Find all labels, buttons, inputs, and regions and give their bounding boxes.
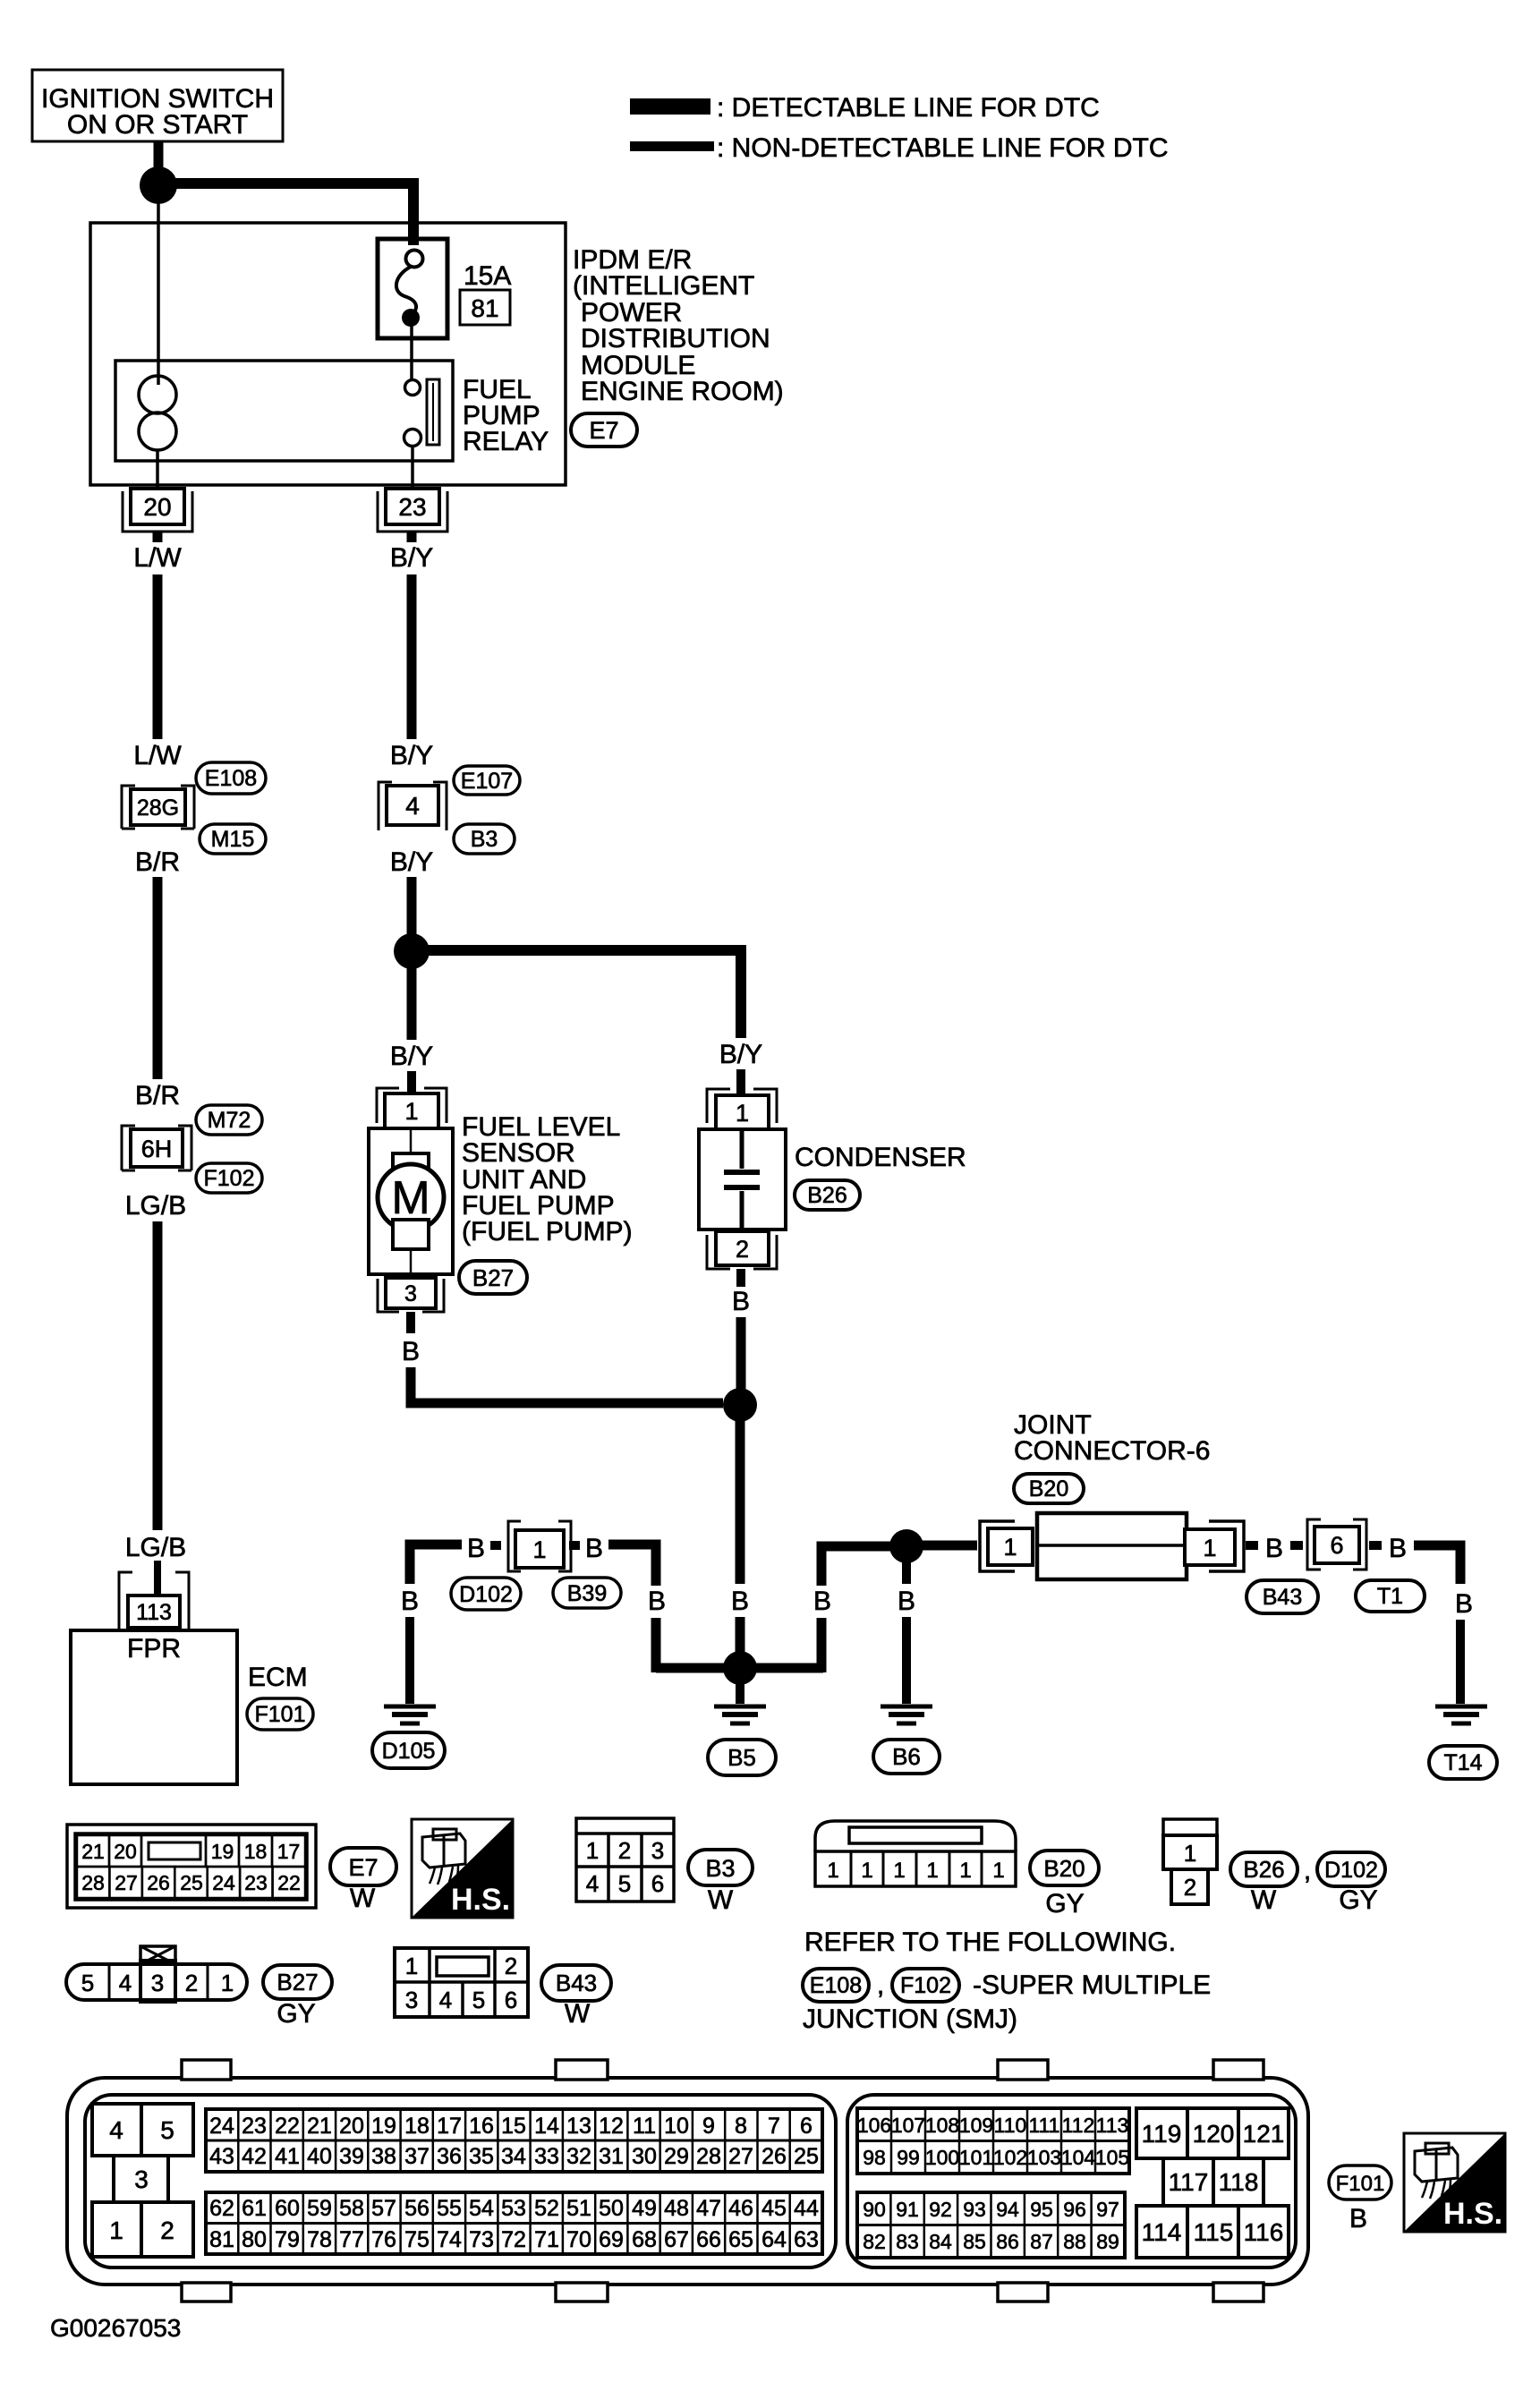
svg-text:G00267053: G00267053	[50, 2314, 181, 2342]
ECM box	[71, 1630, 237, 1784]
svg-text:B3: B3	[471, 827, 498, 852]
svg-text:84: 84	[929, 2230, 952, 2253]
svg-text:100: 100	[925, 2146, 959, 2169]
svg-text:F101: F101	[255, 1702, 306, 1727]
svg-text:B/Y: B/Y	[719, 1040, 762, 1069]
ground symbol B5	[714, 1705, 766, 1709]
svg-text:82: 82	[863, 2230, 886, 2253]
svg-text:B: B	[731, 1587, 749, 1616]
connector ref B3 oval	[454, 824, 515, 854]
svg-text:B/R: B/R	[135, 847, 180, 877]
fuel pump relay box	[115, 361, 453, 461]
svg-text:12: 12	[599, 2114, 624, 2139]
svg-text:B43: B43	[556, 1970, 597, 1996]
svg-text:4: 4	[119, 1970, 132, 1996]
svg-text:19: 19	[211, 1840, 234, 1863]
svg-text:2: 2	[736, 1236, 749, 1263]
fuse number 81 box	[460, 290, 510, 325]
connector ref F102 oval	[196, 1163, 262, 1193]
svg-text:68: 68	[632, 2227, 657, 2252]
svg-text:43: 43	[209, 2144, 234, 2169]
joint connector body	[1037, 1513, 1187, 1579]
svg-text:T14: T14	[1443, 1750, 1482, 1775]
SMJ connector 28G	[131, 789, 185, 825]
svg-text:B: B	[1349, 2204, 1367, 2234]
svg-text:25: 25	[180, 1871, 203, 1894]
wire down to B6 ground	[902, 1617, 911, 1704]
svg-text:71: 71	[534, 2227, 559, 2252]
connector ref B39 oval	[553, 1578, 621, 1608]
svg-text:: DETECTABLE LINE FOR DTC: : DETECTABLE LINE FOR DTC	[717, 93, 1100, 123]
connector ref E107 oval	[454, 766, 520, 795]
condenser body B26	[699, 1129, 786, 1230]
svg-text:E107: E107	[461, 769, 513, 794]
svg-text:8: 8	[735, 2114, 747, 2139]
svg-text:31: 31	[599, 2144, 624, 2169]
fuse 15A box	[378, 239, 447, 338]
svg-text:20: 20	[114, 1840, 137, 1863]
svg-text:67: 67	[664, 2227, 689, 2252]
junction node B6 splice	[889, 1529, 923, 1563]
cells 4 5 3 1 2	[92, 2104, 141, 2156]
connector T1 pin 6	[1307, 1519, 1321, 1570]
svg-text:ON OR START: ON OR START	[67, 110, 248, 140]
svg-text:104: 104	[1061, 2146, 1096, 2169]
svg-text:1: 1	[893, 1859, 905, 1883]
svg-text:3: 3	[134, 2165, 149, 2193]
svg-text:B43: B43	[1263, 1585, 1302, 1610]
svg-text:23: 23	[244, 1871, 268, 1894]
wire splice down	[736, 1421, 745, 1584]
svg-text:94: 94	[996, 2198, 1019, 2221]
svg-text:23: 23	[398, 493, 426, 521]
svg-text:6: 6	[651, 1870, 664, 1897]
B43 connector pinout	[395, 1948, 528, 2017]
svg-text:1: 1	[861, 1859, 872, 1883]
svg-text:119: 119	[1142, 2120, 1182, 2148]
svg-text:101: 101	[959, 2146, 993, 2169]
fuse element	[406, 251, 423, 268]
SMJ connector 4	[387, 786, 438, 825]
svg-text:L/W: L/W	[133, 741, 182, 770]
wire down to D105	[405, 1617, 414, 1704]
wire stub below pin 2	[736, 1269, 745, 1287]
svg-text:50: 50	[599, 2196, 624, 2221]
svg-text:ENGINE ROOM): ENGINE ROOM)	[581, 377, 784, 406]
svg-text:F101: F101	[1336, 2172, 1385, 2196]
connector ref M15 oval	[200, 824, 266, 854]
svg-text:70: 70	[566, 2227, 591, 2252]
ECM connector F101 housing	[67, 2078, 1308, 2285]
ground ref B6 oval	[873, 1740, 940, 1774]
svg-text:114: 114	[1142, 2218, 1182, 2246]
relay armature bar	[427, 379, 439, 445]
svg-text:60: 60	[275, 2196, 300, 2221]
svg-text:54: 54	[469, 2196, 494, 2221]
connector ref B20 oval	[1014, 1474, 1084, 1503]
E7 connector pinout	[67, 1825, 316, 1908]
svg-text:B: B	[401, 1587, 419, 1616]
svg-text:B: B	[402, 1337, 420, 1366]
svg-text:61: 61	[242, 2196, 267, 2221]
svg-text:87: 87	[1030, 2230, 1053, 2253]
svg-text:69: 69	[599, 2227, 624, 2252]
ground symbol T14	[1435, 1705, 1487, 1709]
svg-text:26: 26	[761, 2144, 787, 2169]
svg-text:106: 106	[857, 2114, 891, 2137]
legend: detectable line sample	[630, 98, 710, 115]
svg-text:B: B	[813, 1587, 831, 1616]
svg-text:98: 98	[863, 2146, 886, 2169]
svg-text:30: 30	[632, 2144, 657, 2169]
svg-text:1: 1	[109, 2217, 123, 2244]
svg-text:: NON-DETECTABLE LINE FOR DTC: : NON-DETECTABLE LINE FOR DTC	[717, 133, 1169, 163]
svg-text:20: 20	[143, 493, 171, 521]
svg-text:22: 22	[277, 1871, 301, 1894]
svg-text:ECM: ECM	[248, 1663, 308, 1692]
svg-text:3: 3	[405, 1987, 418, 2013]
wire to B43	[1246, 1541, 1258, 1550]
connector ref B26 oval	[795, 1180, 860, 1210]
wire B/Y vertical	[407, 574, 417, 739]
svg-text:113: 113	[136, 1600, 172, 1625]
svg-text:B27: B27	[277, 1969, 318, 1995]
svg-text:W: W	[565, 1999, 591, 2029]
wire B/Y to fuel pump	[407, 968, 417, 1040]
svg-text:1: 1	[992, 1859, 1004, 1883]
svg-text:6: 6	[505, 1987, 517, 2013]
svg-text:115: 115	[1194, 2218, 1234, 2246]
svg-text:116: 116	[1244, 2218, 1284, 2246]
svg-text:5: 5	[160, 2116, 174, 2144]
svg-text:81: 81	[209, 2227, 234, 2252]
svg-text:24: 24	[212, 1871, 235, 1894]
svg-text:56: 56	[404, 2196, 430, 2221]
svg-text:3: 3	[404, 1281, 417, 1306]
svg-text:B20: B20	[1043, 1855, 1085, 1882]
pin grid 62-44 / 81-63	[206, 2192, 822, 2254]
wire coil to pin 20	[156, 450, 159, 489]
svg-text:7: 7	[768, 2114, 780, 2139]
svg-text:85: 85	[963, 2230, 986, 2253]
housing tab top	[1213, 2060, 1263, 2080]
svg-text:111: 111	[1029, 2114, 1060, 2137]
joint connector left pin 1	[980, 1521, 1015, 1571]
svg-text:28: 28	[81, 1871, 105, 1894]
B27 keying box with X	[140, 1946, 175, 1964]
connector ref E7 oval	[571, 413, 637, 447]
pinout ref B3 oval	[688, 1850, 753, 1885]
svg-text:18: 18	[404, 2114, 430, 2139]
wire fuse to relay contact	[410, 325, 413, 379]
wire B/Y to junction	[407, 877, 417, 934]
wire down to T14	[1456, 1620, 1465, 1704]
svg-text:27: 27	[728, 2144, 753, 2169]
ground ref B5 oval	[708, 1740, 776, 1775]
svg-text:E108: E108	[205, 766, 257, 791]
capacitor symbol	[740, 1129, 744, 1169]
IPDM E/R module box E7	[90, 223, 566, 485]
svg-text:GY: GY	[277, 1999, 315, 2029]
svg-text:B: B	[1455, 1589, 1473, 1619]
svg-text:B: B	[1389, 1534, 1407, 1563]
svg-text:3: 3	[651, 1837, 664, 1864]
svg-text:DISTRIBUTION: DISTRIBUTION	[581, 324, 770, 353]
wire LG/B vertical	[153, 1221, 163, 1530]
svg-text:92: 92	[929, 2198, 952, 2221]
svg-text:LG/B: LG/B	[125, 1533, 186, 1562]
svg-text:34: 34	[501, 2144, 526, 2169]
svg-text:73: 73	[469, 2227, 494, 2252]
B3 connector pinout	[576, 1818, 674, 1902]
svg-text:117: 117	[1169, 2168, 1209, 2196]
svg-text:W: W	[708, 1885, 734, 1915]
housing tab bottom	[1213, 2283, 1263, 2302]
svg-text:97: 97	[1096, 2198, 1119, 2221]
svg-text:4: 4	[586, 1870, 599, 1897]
svg-text:M: M	[391, 1172, 430, 1224]
svg-text:D102: D102	[459, 1582, 513, 1607]
svg-text:SENSOR: SENSOR	[462, 1138, 575, 1168]
pin grid 90-97 / 82-89	[857, 2192, 1125, 2258]
svg-text:107: 107	[891, 2114, 925, 2137]
svg-text:65: 65	[728, 2227, 753, 2252]
svg-text:17: 17	[437, 2114, 462, 2139]
svg-text:1: 1	[586, 1837, 599, 1864]
svg-text:3: 3	[151, 1970, 164, 1996]
svg-text:89: 89	[1096, 2230, 1119, 2253]
wire splice to joint connector	[922, 1541, 977, 1551]
svg-text:13: 13	[566, 2114, 591, 2139]
condenser pin 2 connector	[716, 1231, 769, 1265]
wire right limb corner	[821, 1546, 890, 1586]
svg-text:95: 95	[1030, 2198, 1053, 2221]
housing tab bottom	[182, 2283, 231, 2302]
wire to connector B39	[569, 1541, 580, 1550]
B26/D102 connector pinout	[1163, 1819, 1217, 1835]
harness symbol H.S. bottom	[1404, 2133, 1505, 2232]
svg-text:2: 2	[1184, 1874, 1196, 1901]
svg-text:FPR: FPR	[127, 1634, 181, 1663]
connector ref B43 oval	[1246, 1580, 1318, 1613]
ECM pin 113 connector	[119, 1572, 189, 1630]
svg-text:80: 80	[242, 2227, 267, 2252]
svg-text:E108: E108	[810, 1973, 862, 1998]
svg-text:19: 19	[371, 2114, 396, 2139]
note ref E108 oval	[803, 1969, 869, 2002]
pin grid 24-6 / 43-25	[206, 2109, 822, 2172]
svg-text:93: 93	[963, 2198, 986, 2221]
connector B39/D102 pin 1	[515, 1530, 564, 1568]
housing tab bottom	[998, 2283, 1048, 2302]
svg-text:6: 6	[1330, 1532, 1343, 1559]
svg-text:1: 1	[1203, 1535, 1216, 1561]
svg-text:25: 25	[794, 2144, 819, 2169]
svg-text:B/Y: B/Y	[390, 1042, 433, 1071]
svg-text:23: 23	[242, 2114, 267, 2139]
svg-text:32: 32	[566, 2144, 591, 2169]
svg-text:83: 83	[896, 2230, 919, 2253]
connector ref M72 oval	[196, 1105, 262, 1135]
svg-text:16: 16	[469, 2114, 494, 2139]
svg-text:1: 1	[221, 1970, 234, 1996]
svg-text:W: W	[350, 1884, 376, 1913]
svg-text:B/Y: B/Y	[390, 847, 433, 877]
svg-text:GY: GY	[1045, 1889, 1084, 1919]
svg-text:109: 109	[959, 2114, 993, 2137]
svg-text:CONDENSER: CONDENSER	[795, 1143, 966, 1172]
wire corner to T14 ground	[1414, 1545, 1460, 1584]
svg-text:1: 1	[827, 1859, 838, 1883]
svg-text:1: 1	[959, 1859, 971, 1883]
svg-text:118: 118	[1219, 2168, 1259, 2196]
svg-text:2: 2	[618, 1837, 631, 1864]
svg-text:39: 39	[339, 2144, 364, 2169]
svg-text:JUNCTION (SMJ): JUNCTION (SMJ)	[803, 2004, 1017, 2034]
svg-text:CONNECTOR-6: CONNECTOR-6	[1014, 1436, 1210, 1466]
svg-text:(INTELLIGENT: (INTELLIGENT	[573, 271, 754, 301]
ground junction node	[723, 1651, 757, 1685]
housing tab bottom	[556, 2283, 608, 2302]
svg-text:REFER TO THE FOLLOWING.: REFER TO THE FOLLOWING.	[804, 1927, 1176, 1957]
relay contact lower	[404, 430, 421, 447]
svg-text:B39: B39	[567, 1581, 607, 1606]
svg-text:B/Y: B/Y	[390, 741, 433, 770]
svg-text:26: 26	[147, 1871, 170, 1894]
note ref F102 oval	[892, 1969, 959, 2002]
pinout ref B26 oval	[1230, 1852, 1298, 1886]
joint connector right pin 1	[1185, 1529, 1235, 1565]
ground symbol D105	[384, 1705, 436, 1709]
svg-text:102: 102	[993, 2146, 1027, 2169]
svg-text:72: 72	[501, 2227, 526, 2252]
svg-text:D105: D105	[382, 1739, 436, 1764]
svg-text:58: 58	[339, 2196, 364, 2221]
svg-text:1: 1	[532, 1536, 546, 1563]
connector ref F101 oval	[247, 1698, 313, 1730]
svg-text:B20: B20	[1029, 1476, 1068, 1502]
svg-text:90: 90	[863, 2198, 886, 2221]
svg-text:42: 42	[242, 2144, 267, 2169]
svg-text:29: 29	[664, 2144, 689, 2169]
pump motor M	[378, 1164, 444, 1230]
svg-text:37: 37	[404, 2144, 430, 2169]
junction node B/Y splice	[394, 933, 430, 969]
svg-text:81: 81	[471, 294, 498, 322]
connector ref T1 oval	[1356, 1580, 1425, 1612]
svg-text:5: 5	[472, 1987, 485, 2013]
svg-text:63: 63	[794, 2227, 819, 2252]
svg-text:T1: T1	[1377, 1584, 1403, 1609]
wire branch to fuse	[171, 183, 413, 245]
wire stub below pin 23	[407, 532, 417, 542]
svg-text:64: 64	[761, 2227, 787, 2252]
ground bus horizontal	[656, 1663, 823, 1673]
wire from ignition switch to junction	[154, 141, 164, 170]
svg-text:120: 120	[1193, 2120, 1235, 2148]
svg-text:W: W	[1251, 1885, 1277, 1915]
svg-text:B: B	[585, 1534, 603, 1563]
svg-text:96: 96	[1063, 2198, 1086, 2221]
svg-text:40: 40	[307, 2144, 332, 2169]
svg-text:L/W: L/W	[133, 543, 182, 573]
junction node B splice	[723, 1388, 757, 1422]
svg-text:B5: B5	[727, 1744, 756, 1771]
svg-text:66: 66	[696, 2227, 721, 2252]
svg-text:D102: D102	[1324, 1858, 1378, 1883]
wire branch to condenser	[428, 950, 741, 1038]
condenser pin 1 connector	[707, 1089, 777, 1123]
svg-text:1: 1	[926, 1859, 938, 1883]
wire to left	[490, 1541, 501, 1550]
wire corner to D105 ground	[410, 1544, 462, 1584]
pin 23 connector	[386, 489, 439, 524]
svg-text:4: 4	[109, 2116, 123, 2144]
svg-text:57: 57	[371, 2196, 396, 2221]
svg-text:B: B	[732, 1287, 750, 1316]
pinout ref B43 oval	[541, 1965, 611, 2001]
svg-text:28: 28	[696, 2144, 721, 2169]
svg-text:18: 18	[244, 1840, 268, 1863]
svg-text:E7: E7	[589, 417, 618, 444]
svg-text:59: 59	[307, 2196, 332, 2221]
svg-text:2: 2	[505, 1953, 517, 1979]
wire B5 ground drop	[736, 1683, 744, 1704]
svg-text:5: 5	[618, 1870, 631, 1897]
svg-text:51: 51	[566, 2196, 591, 2221]
svg-text:B6: B6	[892, 1743, 921, 1770]
B27 connector pinout	[66, 1964, 247, 2000]
svg-text:20: 20	[339, 2114, 364, 2139]
svg-text:21: 21	[81, 1840, 105, 1863]
svg-text:6H: 6H	[141, 1136, 173, 1162]
pin grid 106-113 / 98-105	[857, 2108, 1129, 2174]
svg-text:36: 36	[437, 2144, 462, 2169]
B20 connector pinout	[815, 1821, 1016, 1851]
svg-text:4: 4	[439, 1987, 452, 2013]
SMJ connector 6H	[131, 1129, 183, 1167]
svg-text:6: 6	[800, 2114, 813, 2139]
ground ref T14 oval	[1429, 1746, 1497, 1779]
svg-text:24: 24	[209, 2114, 234, 2139]
housing tab top	[182, 2060, 231, 2080]
wire to ground junction	[736, 1617, 745, 1668]
svg-text:108: 108	[925, 2114, 959, 2137]
junction node (battery feed splice)	[140, 166, 177, 204]
svg-text:B: B	[648, 1587, 666, 1616]
pinout ref E7 oval	[330, 1848, 396, 1885]
svg-text:28G: 28G	[137, 796, 179, 821]
connector ref D102 oval	[451, 1578, 521, 1610]
connector ref E108 oval	[196, 762, 266, 794]
wire contact to pin 23	[411, 446, 414, 489]
fuel pump pin 1 connector	[377, 1088, 447, 1123]
svg-text:88: 88	[1063, 2230, 1086, 2253]
svg-text:GY: GY	[1339, 1885, 1377, 1915]
svg-text:38: 38	[371, 2144, 396, 2169]
wire junction to relay coil	[157, 202, 160, 385]
relay contact upper	[405, 380, 421, 396]
pinout ref B20 oval	[1030, 1851, 1099, 1885]
svg-text:27: 27	[115, 1871, 138, 1894]
svg-text:11: 11	[633, 2114, 656, 2139]
pinout ref D102 oval	[1317, 1852, 1385, 1886]
svg-text:(FUEL PUMP): (FUEL PUMP)	[462, 1217, 633, 1247]
svg-text:110: 110	[994, 2114, 1027, 2137]
svg-text:99: 99	[897, 2146, 920, 2169]
svg-text:35: 35	[469, 2144, 494, 2169]
ground symbol B6	[881, 1705, 932, 1709]
